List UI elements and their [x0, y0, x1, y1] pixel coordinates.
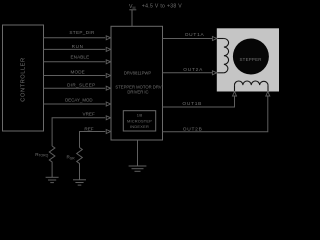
wire OUT1A	[163, 32, 217, 40]
wire RUN	[44, 44, 111, 51]
microstep indexer inner box	[123, 111, 155, 131]
svg-text:DECAY_MOD: DECAY_MOD	[65, 98, 93, 103]
svg-text:DIR_SLEEP: DIR_SLEEP	[67, 83, 95, 88]
IC ground	[129, 140, 147, 171]
wire VREF node	[52, 112, 111, 146]
wire REF node	[80, 126, 111, 147]
wire MODE	[44, 70, 111, 78]
svg-text:INDEXER: INDEXER	[130, 124, 149, 129]
controller U2 box	[3, 25, 44, 131]
motor rotor circle	[233, 39, 269, 75]
winding A stubs	[217, 38, 224, 40]
svg-text:+4.5 V to +38 V: +4.5 V to +38 V	[142, 4, 182, 10]
svg-text:MICROSTEP: MICROSTEP	[127, 118, 152, 123]
stepper motor body	[217, 29, 278, 91]
wire ENABLE	[44, 55, 111, 64]
svg-text:DRV8811PWP: DRV8811PWP	[124, 71, 152, 76]
resistor Rtorq	[35, 146, 55, 177]
svg-text:1/8: 1/8	[137, 112, 142, 117]
svg-text:RUN: RUN	[72, 44, 84, 49]
svg-text:RSR: RSR	[67, 155, 76, 161]
resistor Rsr	[67, 148, 83, 180]
wire OUT2A	[163, 67, 217, 75]
svg-text:MODE: MODE	[71, 70, 85, 75]
ground for Rtorq	[46, 177, 59, 182]
wire STEP_DIR	[44, 30, 111, 40]
wire OUT2B	[163, 92, 270, 133]
svg-text:VREF: VREF	[83, 112, 95, 117]
VM supply net	[129, 4, 182, 27]
svg-text:STEPPER: STEPPER	[239, 57, 261, 62]
ground for Rsr	[73, 180, 86, 185]
winding B coil	[235, 81, 269, 85]
svg-text:REF: REF	[84, 126, 93, 131]
svg-text:DRIVER IC: DRIVER IC	[127, 89, 148, 94]
wire DECAY_MODE	[44, 98, 111, 106]
svg-text:OUT2B: OUT2B	[183, 127, 203, 133]
wire OUT1B	[163, 92, 237, 107]
svg-text:OUT1A: OUT1A	[185, 32, 205, 38]
winding A coil	[224, 39, 229, 73]
svg-text:CONTROLLER: CONTROLLER	[20, 57, 26, 101]
svg-text:RTORQ: RTORQ	[35, 152, 48, 158]
driver IC U1 box	[111, 26, 163, 140]
wire DR_SLEEP	[44, 83, 111, 91]
winding B stubs	[234, 85, 236, 91]
svg-text:STEP_DIR: STEP_DIR	[69, 30, 95, 35]
svg-text:OUT2A: OUT2A	[183, 67, 203, 73]
svg-text:ENABLE: ENABLE	[71, 55, 90, 60]
svg-text:OUT1B: OUT1B	[182, 101, 202, 107]
